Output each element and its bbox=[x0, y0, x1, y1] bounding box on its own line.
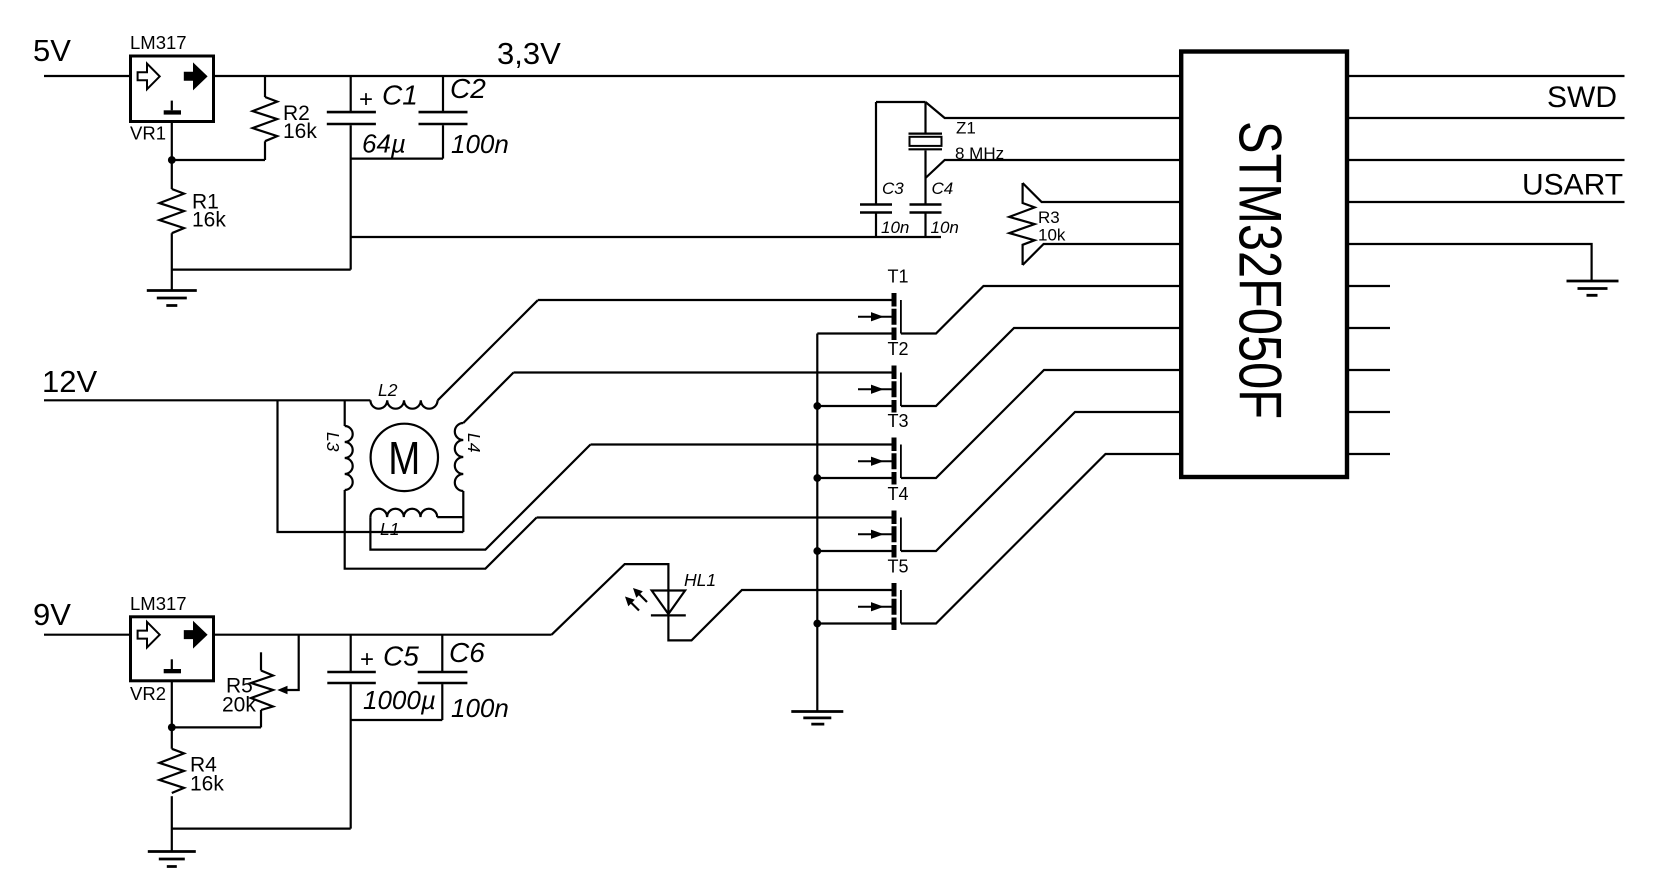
svg-text:L3: L3 bbox=[323, 432, 343, 452]
wire right rail 3,3V bbox=[1347, 75, 1625, 77]
VR2 adj pin symbol bbox=[171, 659, 173, 669]
pin stub 2 bbox=[1347, 327, 1390, 329]
svg-text:T2: T2 bbox=[888, 339, 909, 359]
ground under R4 bbox=[148, 852, 196, 867]
wire T4 gate to MCU bbox=[901, 412, 1181, 551]
svg-text:20k: 20k bbox=[222, 694, 256, 717]
capacitor C1 top lead bbox=[350, 76, 352, 111]
VR1 input open arrow bbox=[138, 64, 160, 90]
wire VR2 output bbox=[215, 634, 552, 636]
MCU U1 STM32F050F block bbox=[1181, 52, 1347, 478]
wire ground pin right bbox=[1347, 244, 1592, 280]
svg-text:10k: 10k bbox=[1038, 226, 1066, 245]
wire C4 bottom lead bbox=[924, 214, 926, 238]
wire L4 bottom lead bbox=[462, 491, 464, 532]
wire L1 right to L4 bottom bbox=[437, 516, 463, 518]
svg-text:M: M bbox=[388, 432, 420, 484]
wire L4 top to T2 bbox=[463, 373, 513, 424]
VR2 output filled arrow bbox=[184, 622, 207, 648]
wire L2 right to T1 bbox=[438, 300, 538, 400]
inductor L3 bbox=[345, 426, 353, 490]
node adj2 junction dot bbox=[168, 724, 176, 732]
wire L3 top lead bbox=[344, 400, 346, 426]
svg-text:16k: 16k bbox=[190, 773, 224, 796]
svg-text:100n: 100n bbox=[451, 693, 509, 723]
wire T3 gate to MCU bbox=[901, 370, 1181, 478]
wire T1 drain bbox=[538, 299, 892, 301]
wire R1 bottom to cap drop bbox=[172, 269, 351, 271]
ground under R1 bbox=[147, 291, 197, 306]
wire C3 bottom lead bbox=[875, 214, 877, 238]
wire C6 bottom lead bbox=[441, 684, 443, 720]
transistor T2 bbox=[858, 339, 909, 413]
wire 9V input bbox=[44, 634, 129, 636]
svg-text:9V: 9V bbox=[33, 597, 71, 632]
svg-text:T4: T4 bbox=[888, 484, 909, 504]
wire T2 drain bbox=[514, 371, 892, 373]
wire T5 source bbox=[817, 622, 891, 624]
svg-text:5V: 5V bbox=[33, 33, 71, 68]
wire R3 top pin bbox=[1023, 183, 1181, 202]
svg-text:LM317: LM317 bbox=[130, 593, 187, 614]
VR2 input open arrow bbox=[138, 622, 160, 648]
svg-text:T5: T5 bbox=[888, 557, 909, 577]
svg-text:C1: C1 bbox=[382, 80, 418, 111]
wire R4 bottom to cap drop bbox=[172, 827, 351, 829]
LED HL1 bbox=[652, 591, 685, 615]
svg-text:STM32F050F: STM32F050F bbox=[1227, 121, 1294, 419]
resistor R4 bbox=[159, 749, 184, 793]
resistor R1 bbox=[159, 189, 184, 233]
svg-text:C4: C4 bbox=[932, 179, 954, 198]
capacitor C5 top lead bbox=[350, 635, 352, 671]
wire T3 drain bbox=[591, 443, 892, 445]
wire T3 source bbox=[817, 477, 891, 479]
wire L3 bottom to T4 bbox=[345, 490, 537, 569]
wire T4 drain bbox=[537, 516, 892, 518]
inductor L2 bbox=[370, 400, 437, 408]
svg-text:+: + bbox=[360, 646, 374, 673]
wire T4 source bbox=[817, 550, 891, 552]
capacitor C4 plates bbox=[910, 205, 942, 213]
VR1 output filled arrow bbox=[184, 64, 207, 90]
wire T5 gate to MCU bbox=[901, 454, 1181, 624]
svg-text:16k: 16k bbox=[283, 120, 317, 143]
node rail junction T4 bbox=[813, 547, 821, 555]
wire USART line1 bbox=[1347, 201, 1625, 203]
wire C5-C6 bottom tie bbox=[351, 719, 443, 721]
svg-text:+: + bbox=[359, 86, 373, 113]
wire 3,3V rail bbox=[215, 75, 1181, 77]
svg-text:10n: 10n bbox=[931, 218, 959, 237]
node adj junction dot bbox=[168, 156, 176, 164]
resistor R2 bbox=[253, 97, 278, 141]
wire C2 bottom lead bbox=[442, 125, 444, 158]
wire source rail bbox=[816, 334, 818, 712]
transistor T5 bbox=[858, 557, 909, 631]
capacitor C2 plates bbox=[419, 112, 468, 124]
svg-text:HL1: HL1 bbox=[684, 570, 716, 590]
wire 12V line bbox=[44, 399, 370, 401]
pin stub 5 bbox=[1347, 453, 1390, 455]
wire T1 source bbox=[817, 332, 891, 334]
svg-text:R3: R3 bbox=[1038, 208, 1060, 227]
wire 12V common drop bbox=[278, 400, 464, 532]
node rail junction T3 bbox=[813, 474, 821, 482]
wire LED anode diagonal bbox=[552, 564, 669, 635]
svg-text:64µ: 64µ bbox=[362, 129, 406, 159]
svg-text:12V: 12V bbox=[42, 364, 97, 399]
wire OSC pin2 diagonal bbox=[926, 160, 1182, 178]
wire L1 left to T3 bbox=[370, 445, 590, 550]
svg-text:L2: L2 bbox=[378, 380, 398, 400]
wire C1-C2 bottom tie bbox=[351, 158, 443, 160]
capacitor C6 top lead bbox=[441, 635, 443, 671]
svg-text:T3: T3 bbox=[888, 411, 909, 431]
svg-text:16k: 16k bbox=[192, 209, 226, 232]
svg-text:VR2: VR2 bbox=[130, 683, 166, 704]
crystal Z1 bbox=[909, 102, 943, 205]
svg-text:10n: 10n bbox=[881, 218, 909, 237]
wire R3 bottom pin bbox=[1023, 244, 1181, 265]
regulator VR2 LM317 box bbox=[131, 617, 214, 681]
wire SWD line1 bbox=[1347, 117, 1625, 119]
wire C1 bottom lead down to ground wire bbox=[350, 125, 352, 269]
wire crystal top link bbox=[876, 101, 926, 103]
wire R5 bottom to adj bbox=[172, 726, 261, 728]
svg-text:1000µ: 1000µ bbox=[363, 685, 436, 715]
svg-text:SWD: SWD bbox=[1547, 81, 1617, 114]
wire R4 bottom to ground bbox=[171, 796, 173, 850]
svg-text:C3: C3 bbox=[882, 179, 904, 198]
HL1 light arrows bbox=[631, 594, 647, 611]
svg-text:100n: 100n bbox=[451, 129, 509, 159]
wire T2 source bbox=[817, 405, 891, 407]
wire ground rail to C3 C4 bbox=[351, 236, 941, 238]
inductor L1 bbox=[370, 509, 437, 517]
capacitor C3 top lead bbox=[875, 102, 877, 205]
svg-text:L1: L1 bbox=[380, 519, 399, 539]
wire R2 bottom lead bbox=[172, 141, 265, 160]
wire OSC pin1 diagonal bbox=[926, 102, 1182, 118]
wire VR1 adj lead bbox=[171, 123, 173, 189]
transistor T3 bbox=[858, 411, 909, 485]
wire LED cathode to T5 bbox=[668, 590, 891, 640]
pin stub 4 bbox=[1347, 411, 1390, 413]
svg-text:3,3V: 3,3V bbox=[497, 36, 561, 71]
ground right bbox=[1567, 281, 1619, 295]
ground rail bottom bbox=[791, 712, 843, 725]
capacitor C2 top lead bbox=[442, 76, 444, 111]
transistor T4 bbox=[858, 484, 909, 558]
wire T1 gate to MCU bbox=[901, 286, 1181, 334]
svg-text:L4: L4 bbox=[464, 433, 484, 453]
wire VR2 adj lead bbox=[171, 681, 173, 749]
VR1 adj pin symbol bbox=[171, 101, 173, 111]
svg-text:C2: C2 bbox=[450, 73, 486, 104]
capacitor C1 plates bbox=[327, 112, 376, 124]
pin stub 1 bbox=[1347, 285, 1390, 287]
resistor R3 bbox=[1009, 183, 1034, 265]
svg-text:LM317: LM317 bbox=[130, 32, 187, 53]
transistor T1 bbox=[858, 267, 909, 341]
svg-text:USART: USART bbox=[1522, 169, 1623, 202]
node rail junction T2 bbox=[813, 402, 821, 410]
wire R1 bottom to ground bbox=[171, 233, 173, 289]
wire 5V input bbox=[44, 75, 129, 77]
pin stub 3 bbox=[1347, 369, 1390, 371]
node rail junction T5 bbox=[813, 620, 821, 628]
motor M1 circle bbox=[371, 424, 438, 491]
potentiometer R5 bbox=[260, 652, 262, 670]
wire C5 bottom lead down to R4 wire bbox=[350, 684, 352, 829]
svg-text:T1: T1 bbox=[888, 267, 909, 287]
inductor L4 bbox=[455, 423, 464, 491]
wire SWD line2 bbox=[1347, 159, 1625, 161]
regulator VR1 LM317 box bbox=[131, 56, 214, 122]
capacitor C5 plates bbox=[327, 672, 376, 683]
svg-text:C6: C6 bbox=[449, 637, 485, 668]
wire T2 gate to MCU bbox=[901, 328, 1181, 406]
svg-text:C5: C5 bbox=[383, 641, 419, 672]
svg-text:VR1: VR1 bbox=[130, 123, 166, 144]
R5 wiper arrow bbox=[287, 635, 299, 690]
capacitor C3 plates bbox=[860, 205, 892, 213]
capacitor C6 plates bbox=[418, 672, 468, 683]
wire R2 top lead bbox=[264, 76, 266, 97]
svg-text:Z1: Z1 bbox=[956, 119, 976, 138]
